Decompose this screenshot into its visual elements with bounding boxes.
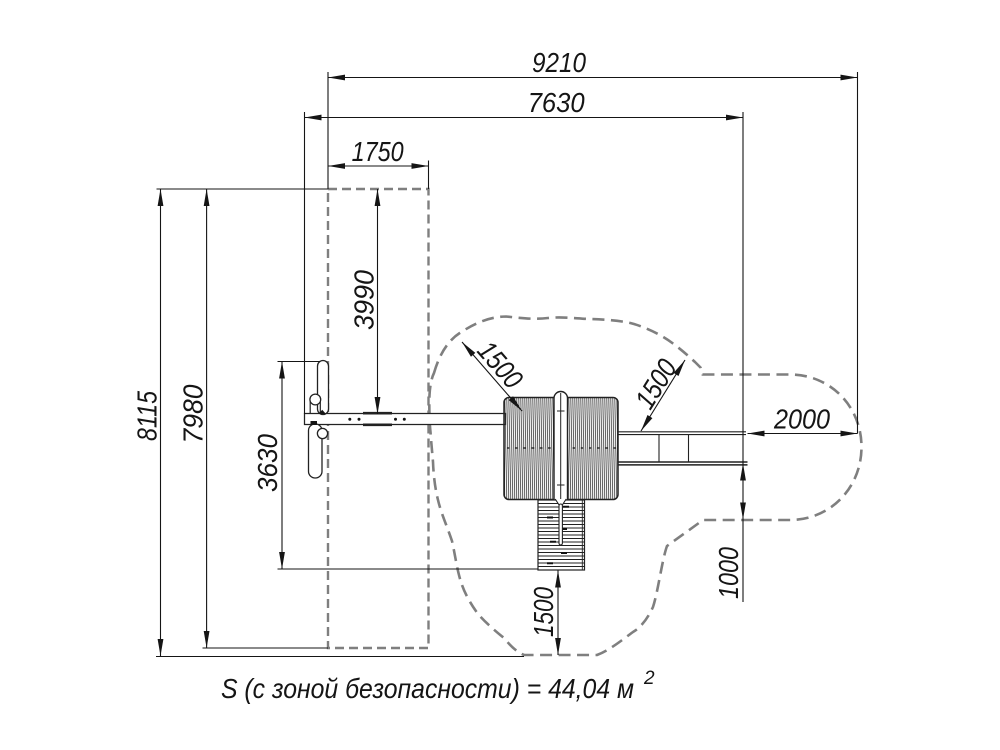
dim 1750 [328, 165, 429, 167]
dim 1500 diagonal left [462, 342, 522, 411]
ext 7630 left [304, 112, 306, 414]
svg-text:1500: 1500 [629, 353, 683, 414]
dim 1500 diagonal right [641, 360, 685, 431]
platform central capsule [554, 392, 568, 507]
dim 3630 [281, 362, 283, 570]
dim 1000 + ext 7630 right [742, 112, 744, 602]
beam (horizontal bar to swing) [305, 414, 506, 425]
ext bottom 7980 [203, 647, 329, 649]
bridge dividers [659, 435, 689, 463]
svg-text:7630: 7630 [528, 87, 585, 118]
beam clamp marks near swing [311, 410, 327, 425]
dim 2000 [748, 433, 858, 435]
arrows 1500 diagonal left [460, 340, 524, 413]
svg-text:1750: 1750 [352, 136, 404, 167]
svg-text:1500: 1500 [471, 335, 529, 395]
beam bolts (dots) [348, 418, 406, 421]
dim 7980 [206, 189, 208, 648]
arrows 2000 [748, 431, 858, 437]
ladder rungs [538, 504, 585, 567]
svg-text:7980: 7980 [178, 384, 209, 443]
svg-text:1000: 1000 [713, 547, 744, 599]
arrows 1000 [740, 464, 746, 520]
svg-text:2000: 2000 [773, 404, 830, 435]
swing upper capsule [318, 361, 329, 415]
arrows 7630 [305, 115, 744, 121]
ext 9210 right [857, 72, 859, 434]
slide tail over ladder [555, 499, 566, 508]
bridge top rail [618, 432, 746, 435]
arrows 1500 bottom [555, 571, 561, 656]
arrows 3630 [279, 362, 285, 570]
ladder right inner edge [581, 500, 583, 570]
svg-text:3990: 3990 [349, 270, 380, 330]
ext top left horizontal [157, 188, 329, 190]
ext 3630 bottom [278, 568, 539, 570]
ladder [538, 499, 585, 570]
platform center dotted seam [507, 447, 616, 449]
arrows 1500 diagonal right [639, 358, 688, 432]
svg-text:S (с зоной безопасности) = 44,: S (с зоной безопасности) = 44,04 м [221, 673, 634, 704]
arrows 3990 [375, 189, 381, 414]
ext 9210 left [327, 72, 329, 189]
safety zone blob (dashed outline) [429, 317, 861, 656]
svg-text:1500: 1500 [528, 587, 559, 637]
dim 9210 [328, 77, 858, 79]
swing lower circle [317, 428, 327, 438]
dim 7630 [305, 117, 744, 119]
svg-text:9210: 9210 [532, 47, 586, 78]
ladder screw marks [547, 507, 569, 564]
arrows 8115 [158, 189, 164, 656]
dim 8115 [160, 189, 162, 656]
svg-text:2: 2 [643, 668, 655, 689]
arrows 1750 [328, 163, 429, 169]
arrowheads [158, 75, 858, 656]
bridge bottom rail [618, 462, 748, 465]
ext 3630 top [278, 361, 321, 363]
dim 3990 [377, 189, 379, 414]
dashed zone rectangle (left) [328, 189, 429, 648]
swing lower capsule [309, 424, 323, 478]
arrows 9210 [328, 75, 858, 81]
swing upper circle [310, 400, 320, 414]
ext 1750 right [428, 161, 430, 190]
ext bottom 8115 [156, 656, 524, 658]
svg-text:3630: 3630 [252, 434, 283, 492]
beam sleeve marks [363, 413, 392, 425]
arrows 7980 [204, 189, 210, 648]
svg-text:8115: 8115 [132, 391, 163, 441]
platform (hatched) [504, 398, 618, 500]
dim 1500 bottom [557, 571, 559, 656]
